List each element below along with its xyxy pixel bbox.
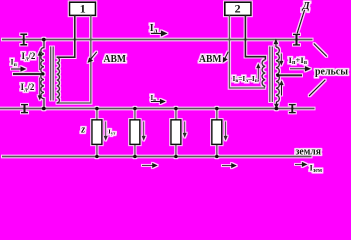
svg-text:Iп: Iп: [11, 58, 18, 68]
arrow current through Rb4: [224, 122, 227, 140]
arrow Ip+Iv direction: [290, 67, 310, 71]
box 2: [225, 2, 251, 16]
insulated joint on top rail right: [293, 34, 300, 45]
wire box2 left lead to secondary bottom: [229, 15, 264, 88]
transformer DT1 main winding: [41, 40, 44, 109]
node rail1/DT1 junction: [42, 38, 46, 42]
transformer DT1 secondary winding: [57, 57, 60, 103]
arrow Il direction: [151, 31, 167, 36]
leader from D to joint: [297, 10, 305, 34]
arrow current through Rb1: [104, 122, 107, 140]
wire DT2 center tap: [276, 74, 302, 76]
arrow current down DT2 top half: [280, 54, 283, 65]
wire rail 1 (top rail): [2, 39, 313, 41]
node DT1 center tap: [41, 72, 44, 75]
arrow Ip into center tap: [11, 67, 25, 71]
core of DT1: [51, 47, 54, 101]
svg-text:Iл/2: Iл/2: [21, 82, 35, 94]
svg-text:Iв=Iл–Iп: Iв=Iл–Iп: [233, 74, 258, 84]
resistor Rb3: [171, 107, 181, 159]
svg-text:2: 2: [235, 2, 241, 16]
wire DT2 top connect with up arrow to rail1: [274, 40, 277, 47]
leader from relsy to rail1: [314, 43, 327, 56]
resistor Rb1: [92, 107, 102, 159]
svg-text:АВМ: АВМ: [199, 54, 222, 65]
svg-text:1: 1: [80, 2, 86, 16]
wire rail 2 (middle rail): [0, 108, 315, 110]
wire earth line: [2, 156, 312, 158]
wire DT1 center tap: [13, 73, 44, 75]
resistor Rb4: [212, 107, 222, 159]
arrow Iv direction: [151, 100, 165, 104]
svg-text:Iзем: Iзем: [310, 162, 322, 174]
resistor Rb2: [130, 107, 140, 159]
wire box1 right lead to secondary bottom: [57, 15, 91, 103]
svg-text:АВМ: АВМ: [104, 54, 127, 65]
insulated joint on middle rail left: [21, 104, 28, 113]
arrow current up in DT1 top half: [38, 52, 41, 70]
arrow secondary current DT2: [257, 64, 260, 81]
node DT2 center tap: [276, 74, 279, 77]
arrow leader ABM right: [223, 52, 228, 62]
svg-text:Д: Д: [302, 1, 311, 12]
arrow earth current right: [295, 163, 307, 167]
arrow earth current 2: [222, 164, 236, 168]
svg-text:земля: земля: [296, 147, 322, 158]
transformer DT2 secondary winding: [262, 60, 265, 86]
svg-text:z: z: [80, 125, 85, 136]
svg-text:рельсы: рельсы: [315, 66, 348, 78]
wire DT2 bottom connect with down arrow to rail2: [275, 102, 278, 108]
svg-text:Iв: Iв: [151, 94, 157, 103]
box 1: [70, 2, 96, 16]
wire box2 right lead to secondary top: [245, 15, 265, 59]
arrow earth current 1: [142, 164, 157, 168]
node rail2/DT1 junction: [42, 107, 46, 111]
arrow leader ABM left: [88, 52, 97, 62]
arrow current through Rb2: [142, 122, 145, 140]
arrow current down in DT1 bottom half: [38, 78, 41, 100]
svg-text:Iут: Iут: [108, 128, 116, 135]
svg-text:Iп+Iв: Iп+Iв: [289, 55, 308, 66]
leader from relsy to rail2: [309, 80, 325, 96]
transformer DT2 main winding: [276, 47, 279, 102]
insulated joint on middle rail right: [289, 104, 296, 113]
arrow current through Rb3: [183, 122, 186, 137]
svg-text:Iл: Iл: [150, 23, 158, 35]
node rail2/DT2 junction: [275, 107, 279, 111]
svg-text:Iл/2: Iл/2: [22, 51, 36, 63]
insulated joint on top rail left: [20, 34, 27, 45]
arrow current up DT2 bottom half: [280, 81, 283, 95]
core of DT2: [270, 47, 273, 103]
wire box1 left lead to secondary top: [57, 15, 75, 57]
